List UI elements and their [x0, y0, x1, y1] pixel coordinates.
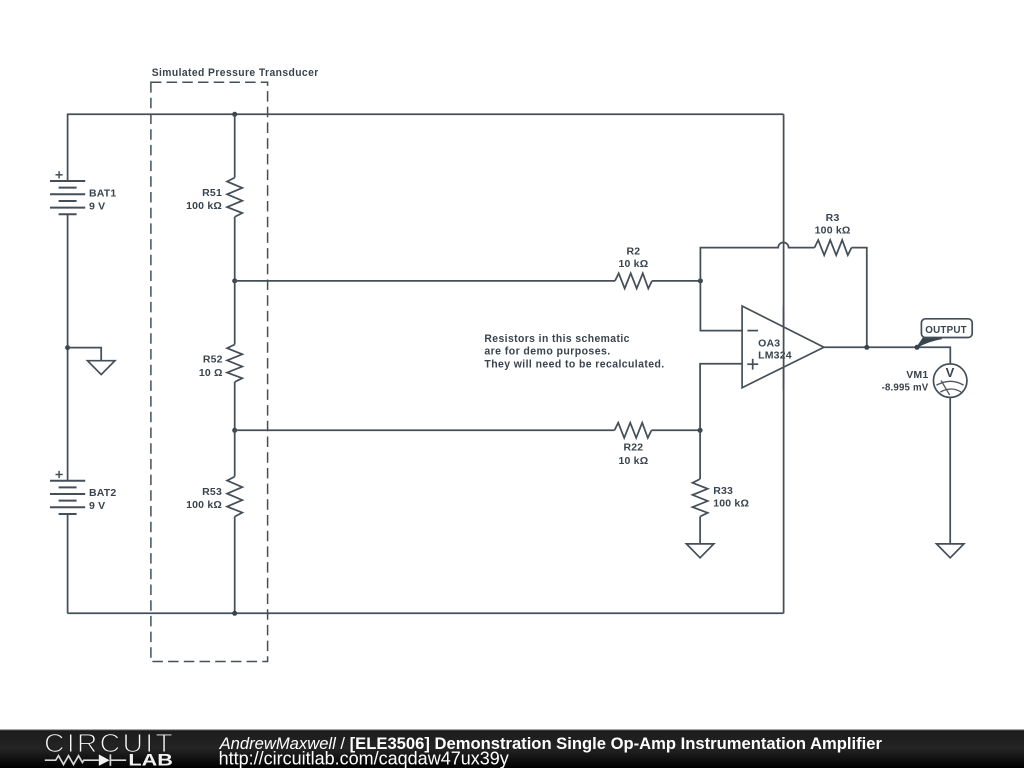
- wire R53 to bottom rail: [234, 517, 236, 614]
- annotation note: [484, 333, 664, 371]
- resistor R52: [227, 345, 242, 383]
- node transducer top: [232, 112, 237, 117]
- svg-text:LAB: LAB: [128, 752, 173, 768]
- svg-text:R33: R33: [713, 485, 733, 497]
- resistor R53: [227, 477, 242, 517]
- wire transducer top: [234, 114, 236, 177]
- resistor R22: [615, 423, 652, 438]
- wire left rail lower: [67, 514, 69, 613]
- wire feedback right: [852, 248, 867, 348]
- ground below R33: [686, 544, 713, 558]
- svg-text:9 V: 9 V: [89, 500, 105, 512]
- node plus junction: [698, 428, 703, 433]
- svg-text:BAT1: BAT1: [89, 187, 116, 199]
- svg-text:10 kΩ: 10 kΩ: [618, 455, 648, 467]
- svg-text:R52: R52: [203, 354, 223, 366]
- battery BAT1: [50, 171, 85, 214]
- wire low node to R53: [234, 430, 236, 476]
- wire to op-amp plus input: [700, 364, 742, 431]
- wire R22 to plus node: [652, 429, 701, 431]
- svg-text:100 kΩ: 100 kΩ: [186, 499, 222, 511]
- wire mid node to R52: [234, 281, 236, 345]
- node minus junction: [698, 278, 703, 283]
- ground near batteries: [88, 361, 115, 375]
- node feedback-output: [864, 345, 869, 350]
- dashed box Simulated Pressure Transducer: [151, 82, 268, 661]
- wire to op-amp minus input: [700, 281, 742, 331]
- resistor R3: [815, 240, 852, 255]
- voltmeter VM1: [882, 364, 967, 398]
- svg-text:LM324: LM324: [758, 349, 792, 361]
- svg-text:9 V: 9 V: [89, 200, 105, 212]
- wire right rail through op-amp (redraw over triangle): [783, 306, 785, 390]
- resistor R33: [693, 479, 708, 517]
- wire ground stub: [68, 348, 102, 361]
- svg-text:http://circuitlab.com/caqdaw47: http://circuitlab.com/caqdaw47ux39y: [219, 748, 509, 768]
- wire output: [824, 347, 950, 364]
- wire right rail: [783, 114, 785, 613]
- svg-text:Resistors in this schematic: Resistors in this schematic: [484, 333, 629, 345]
- svg-text:They will need to be recalcula: They will need to be recalculated.: [484, 359, 664, 371]
- ground below voltmeter: [937, 544, 964, 558]
- svg-text:OUTPUT: OUTPUT: [925, 324, 967, 336]
- svg-text:R3: R3: [826, 212, 840, 224]
- svg-text:are for demo purposes.: are for demo purposes.: [484, 346, 610, 358]
- svg-text:R22: R22: [623, 441, 643, 453]
- node ground tap: [65, 345, 70, 350]
- wire R52 to low node: [234, 382, 236, 430]
- svg-text:10 Ω: 10 Ω: [199, 367, 223, 379]
- svg-text:BAT2: BAT2: [89, 487, 116, 499]
- node low-left: [232, 428, 237, 433]
- svg-text:R51: R51: [202, 187, 222, 199]
- svg-text:R53: R53: [202, 486, 222, 498]
- wire R33 to ground: [699, 517, 701, 544]
- wire feedback left with hop: [700, 242, 814, 280]
- footer top highlight: [0, 729, 1024, 730]
- svg-text:R2: R2: [626, 246, 640, 258]
- wire left rail middle: [67, 214, 69, 480]
- node bottom rail: [232, 611, 237, 616]
- resistor R2: [615, 273, 652, 288]
- op-amp OA3: [742, 306, 824, 388]
- svg-text:100 kΩ: 100 kΩ: [713, 498, 749, 510]
- node output tap: [915, 345, 920, 350]
- svg-text:10 kΩ: 10 kΩ: [618, 258, 648, 270]
- wire mid horizontal: [235, 280, 615, 282]
- svg-text:VM1: VM1: [906, 369, 928, 381]
- wire R2 to minus node: [652, 280, 700, 282]
- svg-text:OA3: OA3: [758, 337, 780, 349]
- wire top rail: [68, 113, 784, 115]
- footer bar: [0, 729, 1024, 768]
- wire R51 to mid node: [234, 217, 236, 281]
- wire voltmeter to ground: [949, 397, 951, 544]
- wire plus node to R33: [699, 430, 701, 479]
- output flag OUTPUT: [917, 319, 973, 348]
- wire bottom rail: [68, 612, 784, 614]
- svg-text:100 kΩ: 100 kΩ: [186, 200, 222, 212]
- battery BAT2: [50, 471, 85, 514]
- wire third horizontal: [235, 429, 615, 431]
- node mid-left: [232, 278, 237, 283]
- svg-text:-8.995 mV: -8.995 mV: [882, 382, 929, 394]
- wire left rail upper: [67, 114, 69, 182]
- svg-text:Simulated Pressure Transducer: Simulated Pressure Transducer: [152, 67, 319, 79]
- svg-text:100 kΩ: 100 kΩ: [815, 225, 851, 237]
- resistor R51: [227, 178, 242, 217]
- svg-text:V: V: [946, 365, 955, 380]
- logo doodle resistor-diode: [45, 754, 126, 766]
